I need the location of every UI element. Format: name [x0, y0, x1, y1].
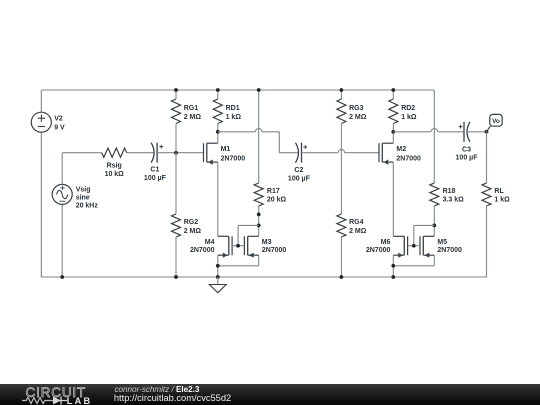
resistor RG3 2M [337, 90, 367, 214]
svg-text:C3: C3 [462, 146, 471, 153]
capacitor C3 100uF [456, 122, 479, 162]
svg-text:Vsig: Vsig [76, 186, 91, 193]
wire node G1 to M1 gate [176, 152, 204, 154]
voltage source Vsig [52, 153, 98, 277]
resistor RD1 1k [213, 90, 241, 132]
resistor RG1 2M [172, 90, 202, 153]
resistor RG2 2M [172, 153, 202, 277]
svg-text:RL: RL [494, 188, 504, 195]
voltage source V2 [31, 90, 65, 277]
svg-text:M3: M3 [262, 239, 272, 246]
junction RD2 top rail [391, 88, 395, 92]
ground symbol [209, 277, 226, 293]
svg-text:2N7000: 2N7000 [221, 155, 246, 162]
svg-text:RD2: RD2 [401, 105, 415, 112]
junction RG3 top rail [340, 88, 344, 92]
capacitor C2 100uF [288, 143, 311, 183]
junction R17 bottom pin [257, 213, 261, 217]
svg-text:3.3 kΩ: 3.3 kΩ [443, 197, 465, 204]
svg-text:RG3: RG3 [349, 105, 364, 112]
logo resistor zigzag and diode [20, 394, 90, 405]
wire Rsig to C1 [127, 152, 155, 154]
svg-text:1 kΩ: 1 kΩ [401, 114, 417, 121]
junction R18 gate tie [432, 224, 436, 228]
svg-text:2 MΩ: 2 MΩ [184, 114, 202, 121]
svg-text:2N7000: 2N7000 [190, 247, 215, 254]
junction RG2 bottom rail [174, 275, 178, 279]
junction Vsig bottom rail [60, 275, 64, 279]
transistor M2 2N7000 [379, 132, 421, 237]
svg-text:Vo: Vo [492, 118, 500, 125]
svg-text:2 MΩ: 2 MΩ [184, 228, 202, 235]
resistor RL 1k [482, 132, 510, 277]
resistor R17 20k [254, 90, 286, 236]
resistor RD2 1k [389, 90, 417, 132]
logo LAB text [67, 396, 92, 405]
capacitor C1 100uF [144, 143, 167, 182]
svg-text:sine: sine [76, 194, 90, 201]
svg-text:100 µF: 100 µF [144, 175, 167, 182]
junction R17 top rail [257, 88, 261, 92]
junction M2 drain node [391, 130, 395, 134]
svg-text:2N7000: 2N7000 [262, 247, 287, 254]
svg-text:2 MΩ: 2 MΩ [349, 228, 367, 235]
credit text [115, 385, 200, 394]
svg-text:RG4: RG4 [349, 219, 364, 226]
junction stage2 rail [391, 275, 395, 279]
svg-text:2N7000: 2N7000 [396, 155, 421, 162]
wire M4 M3 gate tie [232, 225, 259, 245]
wire Vsig to Rsig [62, 152, 101, 154]
svg-text:2N7000: 2N7000 [437, 247, 462, 254]
wire M4 M3 sources to ground [218, 255, 259, 277]
svg-text:100 µF: 100 µF [456, 155, 479, 162]
svg-text:RG2: RG2 [184, 219, 199, 226]
wire top supply rail [41, 89, 434, 91]
resistor Rsig 10k [102, 148, 127, 178]
svg-text:20 kHz: 20 kHz [76, 202, 99, 209]
transistor M3 2N7000 [244, 236, 286, 257]
junction R17 gate tie [257, 224, 261, 228]
svg-text:RG1: RG1 [184, 105, 199, 112]
svg-text:M6: M6 [381, 239, 391, 246]
svg-text:10 kΩ: 10 kΩ [105, 171, 125, 178]
junction M1 drain node [216, 130, 220, 134]
wire C2 to M2 gate with hop [302, 149, 380, 152]
svg-text:1 kΩ: 1 kΩ [226, 114, 242, 121]
wire bottom ground rail [41, 276, 486, 278]
svg-text:M2: M2 [396, 146, 406, 153]
branding bar [0, 384, 540, 405]
transistor M1 2N7000 [204, 132, 246, 237]
wire M6 M5 gate tie [408, 225, 435, 245]
junction RD1 top rail [216, 88, 220, 92]
svg-text:9 V: 9 V [54, 125, 65, 132]
svg-text:20 kΩ: 20 kΩ [267, 197, 287, 204]
svg-text:V2: V2 [54, 116, 63, 123]
transistor M6 2N7000 [366, 236, 408, 257]
wire C1 to node G1 [157, 152, 176, 154]
logo CIRCUIT outline text [26, 385, 87, 400]
svg-text:R17: R17 [267, 188, 280, 195]
resistor R18 3.3k [430, 90, 464, 236]
svg-text:M4: M4 [205, 239, 215, 246]
svg-text:RD1: RD1 [226, 105, 240, 112]
junction output node [485, 130, 489, 134]
junction RG4 bottom rail [340, 275, 344, 279]
junction stage1 rail [216, 275, 220, 279]
svg-text:C1: C1 [150, 166, 159, 173]
svg-text:100 µF: 100 µF [288, 175, 311, 182]
svg-text:M1: M1 [221, 146, 231, 153]
svg-text:R18: R18 [443, 188, 456, 195]
svg-text:C2: C2 [294, 167, 303, 174]
svg-text:2 MΩ: 2 MΩ [349, 114, 367, 121]
wire C3 to output node [467, 131, 487, 133]
flag Vo [487, 114, 503, 131]
svg-text:M5: M5 [437, 239, 447, 246]
resistor RG4 2M [337, 214, 367, 277]
junction RG1 top rail [174, 88, 178, 92]
junction M6 source node [391, 264, 395, 268]
wire M6 M5 sources to ground [393, 255, 434, 277]
svg-text:1 kΩ: 1 kΩ [494, 197, 510, 204]
wire M2 drain to C3 with hop [393, 129, 464, 132]
junction gate tie mid [236, 244, 240, 248]
svg-text:2N7000: 2N7000 [366, 247, 391, 254]
svg-text:Rsig: Rsig [107, 162, 122, 169]
wire M1 drain to C2 with hop [218, 129, 299, 153]
transistor M5 2N7000 [420, 236, 462, 257]
junction M4 source node [216, 264, 220, 268]
junction gate tie mid 2 [412, 244, 416, 248]
transistor M4 2N7000 [190, 236, 232, 257]
node G1 junction [174, 151, 178, 155]
